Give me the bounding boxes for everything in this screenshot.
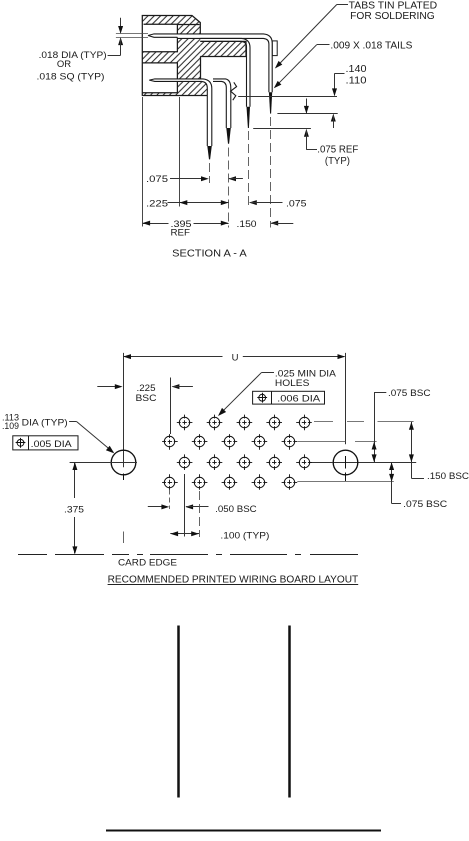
tail 3 tapered tip [247, 107, 251, 128]
reference line 3 (tail 3 tip level) [253, 128, 311, 130]
dimension .075 BSC (rows 2-3) [374, 392, 386, 394]
svg-text:SECTION A - A: SECTION A - A [172, 249, 247, 260]
svg-text:.375: .375 [64, 504, 84, 515]
svg-text:BSC: BSC [136, 393, 157, 404]
svg-text:.110: .110 [346, 75, 367, 86]
svg-text:.075: .075 [146, 173, 168, 184]
arrow down to line2 [306, 99, 308, 113]
bottom figure: left vertical line [177, 626, 180, 798]
svg-text:.150 BSC: .150 BSC [427, 471, 469, 482]
svg-text:.050 BSC: .050 BSC [215, 504, 257, 515]
svg-text:RECOMMENDED PRINTED WIRING BOA: RECOMMENDED PRINTED WIRING BOARD LAYOUT [108, 574, 359, 585]
feature control frame .006 DIA [253, 391, 325, 404]
connector insulator body (hatched section) [142, 16, 207, 96]
svg-text:TABS TIN PLATED: TABS TIN PLATED [349, 0, 438, 11]
row 2 extension line [298, 441, 346, 443]
upper contact pin and tab A with tail 4 [148, 34, 272, 92]
slot 1 (upper contact cavity) [142, 24, 178, 52]
svg-text:HOLES: HOLES [275, 378, 310, 389]
row 4 extension line [297, 481, 394, 483]
svg-text:FOR SOLDERING: FOR SOLDERING [350, 11, 435, 22]
dimension .050 BSC [169, 490, 171, 510]
U dimension [123, 353, 125, 467]
svg-text:.140: .140 [346, 64, 367, 75]
tail 1 tapered tip [207, 146, 212, 159]
svg-text:OR: OR [57, 59, 71, 70]
card edge line [18, 554, 47, 556]
svg-text:REF: REF [171, 227, 191, 238]
svg-text:(TYP): (TYP) [325, 156, 350, 167]
svg-text:.009 X .018 TAILS: .009 X .018 TAILS [330, 41, 412, 52]
big hole right [333, 450, 358, 475]
dimension .018 DIA/SQ with extension lines [116, 33, 148, 35]
svg-text:.150: .150 [237, 218, 257, 229]
lower contact pin with tail 1 [149, 79, 212, 146]
body outline [142, 16, 200, 96]
dimension .375 [74, 463, 76, 498]
svg-text:.225: .225 [146, 197, 168, 208]
hole grid: 20 plated holes [177, 415, 193, 431]
dimension .395 REF [143, 223, 169, 225]
svg-text:.075 REF: .075 REF [317, 145, 358, 156]
arrow up to line2 [331, 114, 336, 122]
arm outline [200, 41, 246, 56]
svg-text:CARD EDGE: CARD EDGE [118, 557, 177, 568]
tab B with tail 3 [200, 38, 250, 106]
svg-text:.005 DIA: .005 DIA [31, 439, 73, 450]
tab plate behind tail 4 [272, 41, 277, 56]
svg-text:.109: .109 [2, 421, 19, 431]
body arm (hatched) [200, 41, 246, 56]
svg-text:.075 BSC: .075 BSC [403, 499, 447, 510]
svg-text:.100 (TYP): .100 (TYP) [220, 531, 269, 542]
tail 4 tapered tip [269, 92, 272, 113]
reference line 1 [238, 96, 337, 98]
svg-text:.075: .075 [286, 197, 307, 208]
body extension lines [142, 97, 144, 227]
svg-text:.006 DIA: .006 DIA [277, 393, 321, 404]
dimension .100 (TYP) [199, 491, 201, 537]
bottom figure: right vertical line [288, 626, 291, 798]
dimension .075 BSC (rows 3-4) [391, 462, 393, 503]
big hole left (.113/.109 DIA) [111, 450, 136, 475]
reference line 2 (tail 4 tip level) [277, 113, 337, 115]
dimension .075 REF (TYP) with leader [304, 129, 309, 137]
break squiggle [231, 82, 237, 100]
row 1 extension line [314, 421, 333, 423]
feature control frame .005 DIA [13, 436, 78, 450]
tail 2 tapered tip [226, 128, 231, 144]
dimension .075 (right) [249, 200, 257, 205]
row 3 extension line [70, 462, 137, 464]
tail centerline extensions [209, 163, 211, 183]
svg-text:.075 BSC: .075 BSC [388, 388, 431, 399]
bottom figure: base horizontal line [106, 830, 381, 832]
svg-text:U: U [232, 352, 239, 363]
broken tab piece with tail 2 [213, 79, 231, 128]
dimension .225 BSC [97, 386, 121, 388]
dimension .150 BSC (rows 1-3) [411, 422, 413, 478]
svg-text:.018 DIA (TYP): .018 DIA (TYP) [39, 50, 107, 61]
svg-text:.018 SQ (TYP): .018 SQ (TYP) [37, 71, 105, 82]
svg-text:DIA (TYP): DIA (TYP) [22, 417, 68, 427]
slot 2 (lower contact cavity) [142, 63, 178, 93]
